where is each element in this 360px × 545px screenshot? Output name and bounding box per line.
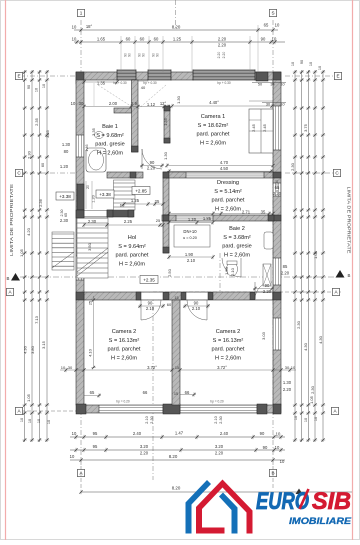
elevation +3.38 right xyxy=(96,190,114,198)
svg-text:H = 2,60m: H = 2,60m xyxy=(215,206,241,212)
svg-text:2.10: 2.10 xyxy=(192,306,201,311)
svg-text:2.50: 2.50 xyxy=(167,268,172,277)
svg-text:95: 95 xyxy=(93,431,98,436)
svg-text:10: 10 xyxy=(275,445,280,450)
svg-text:H = 2,60m: H = 2,60m xyxy=(97,150,123,156)
interior dim line shaft 1.20 1.85 xyxy=(169,222,213,224)
svg-text:LIMITA DE PROPRIETATE: LIMITA DE PROPRIETATE xyxy=(9,184,15,256)
svg-text:EURO: EURO xyxy=(256,488,309,515)
south wall corner block SE xyxy=(273,404,281,414)
axis box A right lower xyxy=(331,407,338,414)
svg-text:2.25: 2.25 xyxy=(124,219,133,224)
svg-text:66: 66 xyxy=(185,390,190,395)
svg-text:10: 10 xyxy=(71,101,76,106)
svg-text:10: 10 xyxy=(20,418,24,422)
svg-text:25: 25 xyxy=(89,301,93,305)
svg-text:90: 90 xyxy=(27,85,31,89)
south wall window left xyxy=(99,405,163,413)
west wall window xyxy=(76,135,84,157)
interior dim lines camera1 bottom 4.70 4.50 xyxy=(167,165,273,167)
south wall xyxy=(84,405,281,413)
interior dim line 1.25 xyxy=(124,203,163,205)
east wall xyxy=(273,80,281,405)
svg-text:90: 90 xyxy=(148,301,153,306)
svg-text:4.30: 4.30 xyxy=(303,342,308,351)
svg-text:4.50: 4.50 xyxy=(220,166,229,171)
svg-text:2.45: 2.45 xyxy=(251,123,256,132)
north wall xyxy=(76,72,281,80)
svg-text:3.72°: 3.72° xyxy=(217,365,227,370)
door arc baie1 xyxy=(142,149,162,169)
north wall window left xyxy=(117,70,136,81)
svg-text:15: 15 xyxy=(175,366,179,370)
door arc hol-camera2 left xyxy=(141,300,161,320)
section A horizontal dashed left xyxy=(15,410,153,412)
east wall niche dressing xyxy=(273,183,281,196)
svg-text:10: 10 xyxy=(304,418,308,422)
svg-text:1.46: 1.46 xyxy=(85,145,89,152)
door arc hol-camera2 right xyxy=(187,300,207,320)
svg-text:90: 90 xyxy=(156,53,160,57)
svg-text:1.85: 1.85 xyxy=(203,216,212,221)
interior staircase xyxy=(77,218,108,278)
interior dim line baie1 top xyxy=(84,106,168,108)
svg-text:2.30: 2.30 xyxy=(60,218,69,223)
svg-text:+2.35: +2.35 xyxy=(143,277,155,282)
svg-text:80: 80 xyxy=(64,149,69,154)
svg-text:1.25: 1.25 xyxy=(173,37,182,42)
svg-text:hp = 0.20: hp = 0.20 xyxy=(116,400,130,404)
interior dim line 1.35 below north wall xyxy=(84,81,117,83)
svg-text:60: 60 xyxy=(41,163,45,167)
svg-text:w = 3.00: w = 3.00 xyxy=(275,180,279,192)
svg-text:1.30: 1.30 xyxy=(176,95,181,104)
interior dim line camera1 top 4.40 xyxy=(172,105,272,107)
svg-text:Dressing: Dressing xyxy=(217,180,239,186)
svg-text:3.35: 3.35 xyxy=(45,129,50,138)
svg-text:90: 90 xyxy=(128,53,132,57)
svg-text:2.9: 2.9 xyxy=(131,101,137,106)
svg-text:10: 10 xyxy=(294,416,298,420)
svg-text:10: 10 xyxy=(309,62,313,66)
svg-text:2.20: 2.20 xyxy=(263,289,272,294)
svg-text:3.20: 3.20 xyxy=(215,444,224,449)
svg-text:2.35: 2.35 xyxy=(34,117,39,126)
axis box E right xyxy=(334,72,341,79)
top dim line 2 xyxy=(74,41,285,43)
axis box A left xyxy=(6,288,13,295)
axis box C right xyxy=(333,169,340,176)
svg-text:10: 10 xyxy=(61,365,66,370)
svg-text:E: E xyxy=(336,74,339,79)
svg-text:1.47: 1.47 xyxy=(175,431,184,436)
sink baie1 xyxy=(95,132,104,139)
svg-text:3.80: 3.80 xyxy=(30,345,35,354)
svg-text:3.35: 3.35 xyxy=(91,127,96,136)
svg-text:90: 90 xyxy=(150,160,155,165)
svg-text:4.30: 4.30 xyxy=(318,335,323,344)
svg-text:DN+10: DN+10 xyxy=(183,229,197,234)
left dim chain lines xyxy=(24,70,26,442)
svg-text:60: 60 xyxy=(140,37,145,42)
axis 1 vertical dashed xyxy=(80,20,82,466)
closet shelf line xyxy=(249,100,273,102)
stair flight upper xyxy=(114,180,136,210)
interior dim line camera2 width 3.72 left xyxy=(60,369,172,371)
radiator baie2 xyxy=(263,264,271,286)
interior wall hol-dressing vertical xyxy=(163,178,169,215)
svg-text:4.30: 4.30 xyxy=(23,345,28,354)
svg-text:pard. parchet: pard. parchet xyxy=(197,132,230,138)
svg-text:4.70: 4.70 xyxy=(220,160,229,165)
svg-text:Hol: Hol xyxy=(128,235,136,241)
svg-text:hp = 0.20: hp = 0.20 xyxy=(210,400,224,404)
svg-text:2.20: 2.20 xyxy=(281,271,290,276)
svg-text:Baie 2: Baie 2 xyxy=(229,226,245,232)
svg-text:12°: 12° xyxy=(160,101,167,106)
svg-text:1.65: 1.65 xyxy=(97,37,106,42)
interior wall baie1-hol xyxy=(107,210,133,217)
interior dim line camera2 east door xyxy=(253,288,274,290)
svg-text:u = 0.20: u = 0.20 xyxy=(183,236,197,240)
svg-text:hp + 0.30: hp + 0.30 xyxy=(217,81,231,85)
svg-text:10: 10 xyxy=(276,432,281,437)
svg-text:65: 65 xyxy=(264,23,269,28)
north wall corner block NW xyxy=(76,72,84,84)
svg-text:20: 20 xyxy=(86,185,90,189)
north wall window mid xyxy=(148,70,171,81)
svg-text:H = 2,60m: H = 2,60m xyxy=(111,355,137,361)
svg-text:85: 85 xyxy=(283,264,288,269)
right dim chain lines xyxy=(294,70,296,442)
east wall window baie2 xyxy=(273,258,281,285)
svg-text:10: 10 xyxy=(318,66,322,70)
door arc hol-baie2 xyxy=(222,258,241,277)
west wall window low xyxy=(76,256,84,280)
svg-text:10: 10 xyxy=(72,25,77,30)
svg-text:66: 66 xyxy=(143,390,148,395)
interior wall camera1 left xyxy=(164,106,170,143)
west wall dark column xyxy=(77,184,84,210)
interior dim line baie1 door 90 xyxy=(140,165,164,167)
shaft box DN xyxy=(174,225,210,247)
svg-text:10: 10 xyxy=(291,62,295,66)
svg-text:60: 60 xyxy=(167,302,172,307)
svg-text:2.10: 2.10 xyxy=(214,416,218,423)
svg-text:3.50: 3.50 xyxy=(87,242,92,251)
south wall pier east xyxy=(257,404,267,414)
interior dim line door 1.90 xyxy=(169,256,213,258)
svg-text:60: 60 xyxy=(120,203,125,208)
svg-text:Camera 2: Camera 2 xyxy=(216,329,241,335)
svg-text:10: 10 xyxy=(314,417,318,421)
entrance swing dashes xyxy=(98,85,137,110)
svg-text:SIB: SIB xyxy=(312,488,351,515)
interior wall hol-baie2 vertical xyxy=(163,221,169,253)
svg-text:1.25: 1.25 xyxy=(131,198,140,203)
bathtub baie1 xyxy=(86,148,106,172)
svg-text:1.90: 1.90 xyxy=(185,252,194,257)
svg-text:15: 15 xyxy=(174,392,178,396)
interior vertical dim camera2 left xyxy=(93,296,95,368)
svg-text:pard. gresie: pard. gresie xyxy=(95,142,125,148)
svg-text:2.20: 2.20 xyxy=(283,387,292,392)
svg-text:10: 10 xyxy=(42,84,46,88)
svg-text:40: 40 xyxy=(141,85,146,90)
interior wall dressing-baie2 xyxy=(162,215,274,221)
svg-text:2.36: 2.36 xyxy=(38,198,43,207)
axis mid vertical dashed xyxy=(152,296,154,480)
svg-text:2.40: 2.40 xyxy=(133,431,142,436)
svg-text:S: S xyxy=(271,11,274,16)
svg-text:S = 3.68m²: S = 3.68m² xyxy=(223,235,251,241)
axis top mid dashed xyxy=(175,0,177,30)
svg-text:10: 10 xyxy=(272,37,277,42)
svg-text:1.05: 1.05 xyxy=(19,248,24,257)
svg-text:1.05: 1.05 xyxy=(26,393,31,402)
svg-text:10: 10 xyxy=(280,83,284,87)
svg-text:10: 10 xyxy=(72,431,77,436)
svg-text:S = 18.62m²: S = 18.62m² xyxy=(198,123,229,129)
toilet baie2 xyxy=(227,262,238,276)
svg-text:10: 10 xyxy=(72,37,77,42)
svg-text:pard. parchet: pard. parchet xyxy=(212,347,245,353)
exterior entrance steps xyxy=(52,232,74,270)
svg-text:90: 90 xyxy=(194,301,199,306)
svg-text:1.35: 1.35 xyxy=(163,117,168,126)
svg-text:S = 9.64m²: S = 9.64m² xyxy=(118,244,146,250)
door arc landing-hol xyxy=(86,219,107,240)
svg-text:+2.85: +2.85 xyxy=(135,188,147,193)
svg-text:30: 30 xyxy=(68,365,73,370)
closet camera1 xyxy=(249,109,273,153)
axis box B bottom xyxy=(269,469,276,476)
property limit line left xyxy=(5,0,7,540)
svg-text:65: 65 xyxy=(64,213,68,217)
north wall corner block NE xyxy=(273,72,281,84)
svg-text:hp + 0.30: hp + 0.30 xyxy=(143,81,157,85)
sink baie2 xyxy=(264,232,273,249)
svg-text:3.20: 3.20 xyxy=(140,444,149,449)
svg-text:7.13: 7.13 xyxy=(34,315,39,324)
svg-text:2.71: 2.71 xyxy=(242,210,251,215)
svg-text:65: 65 xyxy=(90,390,95,395)
svg-text:8.20: 8.20 xyxy=(169,454,178,459)
south wall corner block SW xyxy=(76,404,86,414)
svg-text:10: 10 xyxy=(47,420,51,424)
glazing camera1-dressing xyxy=(186,172,264,178)
svg-text:2.45: 2.45 xyxy=(262,123,267,132)
svg-text:2.10: 2.10 xyxy=(146,306,155,311)
north wall window 2.20 xyxy=(193,70,255,81)
top dim line 1 xyxy=(74,29,278,31)
svg-text:30: 30 xyxy=(266,103,270,107)
bottom total line xyxy=(81,491,352,493)
svg-text:+3.38: +3.38 xyxy=(99,192,111,197)
svg-text:Camera 2: Camera 2 xyxy=(112,329,137,335)
svg-text:H = 2,60m: H = 2,60m xyxy=(215,355,241,361)
svg-text:90: 90 xyxy=(265,283,270,288)
svg-text:3.72°: 3.72° xyxy=(147,365,157,370)
interior wall camera1-dressing xyxy=(107,172,143,178)
section B horizontal dash-dot xyxy=(20,276,341,278)
axis E horizontal dashed xyxy=(20,75,76,77)
north wall pier dark xyxy=(256,72,268,81)
bottom dim line 1 xyxy=(70,436,285,438)
svg-text:90: 90 xyxy=(263,445,268,450)
svg-text:3.03: 3.03 xyxy=(261,331,266,340)
axis box 1 xyxy=(77,9,84,16)
svg-text:60: 60 xyxy=(126,37,131,42)
svg-text:8.20: 8.20 xyxy=(172,25,181,30)
door opening hol-camera2 right gap xyxy=(185,293,208,300)
axis S/B vertical dashed xyxy=(272,20,274,466)
interior wall baie1 L horizontal xyxy=(114,108,132,113)
svg-text:2.20: 2.20 xyxy=(215,451,224,456)
svg-text:2.30: 2.30 xyxy=(88,219,97,224)
svg-text:50: 50 xyxy=(258,83,262,87)
bottom dim line 3 xyxy=(70,459,285,461)
svg-text:pard. parchet: pard. parchet xyxy=(212,198,245,204)
bottom dim line 2 xyxy=(70,449,285,451)
svg-text:1.30: 1.30 xyxy=(163,151,168,160)
north wall small dim 40 xyxy=(136,80,148,82)
svg-text:1.12: 1.12 xyxy=(147,102,156,107)
section marker B right xyxy=(336,270,345,278)
svg-text:E: E xyxy=(17,74,20,79)
svg-text:H = 2,60m: H = 2,60m xyxy=(200,140,226,146)
east wall window camera1 xyxy=(273,106,281,150)
svg-text:2.00: 2.00 xyxy=(109,101,118,106)
svg-text:2.30: 2.30 xyxy=(150,416,154,423)
svg-text:90: 90 xyxy=(142,53,146,57)
axis box A right xyxy=(332,288,339,295)
svg-text:1.30: 1.30 xyxy=(62,142,71,147)
svg-text:2.10: 2.10 xyxy=(187,258,196,263)
svg-text:pard. parchet: pard. parchet xyxy=(116,253,149,259)
svg-text:34: 34 xyxy=(270,83,274,87)
logo EURO SIB house icon blue left stroke xyxy=(186,480,253,534)
svg-text:1.30: 1.30 xyxy=(283,380,292,385)
svg-text:90: 90 xyxy=(260,431,265,436)
interior dim line dressing 2.71 xyxy=(169,213,273,215)
svg-text:30: 30 xyxy=(285,365,290,370)
svg-text:2.30: 2.30 xyxy=(27,150,32,159)
interior dim line hol top xyxy=(84,224,163,226)
axis box E left xyxy=(15,72,22,79)
svg-text:4.40°: 4.40° xyxy=(209,100,219,105)
elevation +3.38 left xyxy=(56,192,74,200)
svg-text:3.15: 3.15 xyxy=(41,340,46,349)
door arc camera2 east xyxy=(255,282,272,299)
svg-text:1.50: 1.50 xyxy=(224,266,229,275)
property limit line right xyxy=(352,0,354,540)
svg-text:35: 35 xyxy=(261,210,266,215)
svg-text:25: 25 xyxy=(155,199,160,204)
svg-text:1.20: 1.20 xyxy=(92,195,96,202)
svg-text:2.30: 2.30 xyxy=(310,385,315,394)
svg-text:8.20: 8.20 xyxy=(172,486,181,491)
svg-text:18°: 18° xyxy=(86,24,93,29)
axis C horizontal dashed xyxy=(20,172,76,174)
svg-text:Camera 1: Camera 1 xyxy=(201,114,226,120)
svg-text:2.30: 2.30 xyxy=(296,320,301,329)
junction caps xyxy=(132,146,139,152)
svg-text:1.05: 1.05 xyxy=(309,395,314,404)
svg-text:2.20: 2.20 xyxy=(140,451,149,456)
svg-text:B: B xyxy=(348,273,351,278)
interior dim line 66 right xyxy=(180,394,196,396)
svg-text:15: 15 xyxy=(174,296,178,300)
axis baie2 vertical dashed xyxy=(219,253,221,298)
svg-text:H = 2,60m: H = 2,60m xyxy=(119,261,145,267)
svg-text:4.20: 4.20 xyxy=(26,227,31,236)
svg-text:10: 10 xyxy=(28,419,32,423)
svg-text:2.30: 2.30 xyxy=(290,162,295,171)
svg-text:2.20: 2.20 xyxy=(218,37,227,42)
svg-text:10: 10 xyxy=(280,459,285,464)
elevation +2.35 xyxy=(140,276,158,284)
section marker B left xyxy=(11,273,20,281)
svg-text:1: 1 xyxy=(80,11,83,16)
interior dim line 65 left xyxy=(84,395,101,397)
svg-text:Baie 1: Baie 1 xyxy=(102,124,118,130)
svg-text:1.05: 1.05 xyxy=(313,250,318,259)
svg-text:25: 25 xyxy=(156,218,161,223)
door opening hol-camera2 left gap xyxy=(140,293,163,300)
svg-text:2.20: 2.20 xyxy=(217,52,221,59)
svg-text:2.20: 2.20 xyxy=(222,52,226,59)
svg-text:S = 9.68m²: S = 9.68m² xyxy=(96,133,124,139)
glazing dressing-baie2 xyxy=(176,215,213,221)
svg-text:2.40: 2.40 xyxy=(220,431,229,436)
svg-text:B: B xyxy=(7,276,10,281)
axis box S xyxy=(269,9,276,16)
svg-text:1.35: 1.35 xyxy=(97,81,106,86)
svg-text:10: 10 xyxy=(275,23,280,28)
svg-text:2.10: 2.10 xyxy=(230,267,235,276)
svg-text:90: 90 xyxy=(300,60,304,64)
svg-text:2.10: 2.10 xyxy=(145,416,149,423)
svg-text:2.20: 2.20 xyxy=(147,166,156,171)
interior wall hol-camera2 divider xyxy=(84,292,273,300)
svg-text:2.30: 2.30 xyxy=(219,416,223,423)
svg-text:pard. parchet: pard. parchet xyxy=(108,347,141,353)
svg-text:hp + 0.30: hp + 0.30 xyxy=(113,81,127,85)
interior dim line camera2 width 3.72 right xyxy=(180,369,296,371)
svg-text:10: 10 xyxy=(37,419,41,423)
logo O red slash xyxy=(300,489,309,509)
interior dim line camera2 doors xyxy=(138,305,165,307)
landing rails xyxy=(85,181,87,209)
svg-text:S = 16.13m²: S = 16.13m² xyxy=(109,338,140,344)
west wall xyxy=(76,80,84,405)
svg-text:1.20: 1.20 xyxy=(188,217,197,222)
axis box A bottom xyxy=(77,469,84,476)
elevation +2.85 xyxy=(132,187,150,195)
svg-text:95: 95 xyxy=(93,444,98,449)
interior wall baie1 L vertical xyxy=(132,80,139,152)
svg-text:IMOBILIARE: IMOBILIARE xyxy=(289,516,352,527)
svg-text:2.20: 2.20 xyxy=(218,43,227,48)
door opening camera2 east gap xyxy=(254,293,272,300)
svg-text:H = 2,60m: H = 2,60m xyxy=(224,252,250,258)
svg-text:3.75: 3.75 xyxy=(303,123,308,132)
south wall pier mid xyxy=(163,404,180,414)
axis box C left xyxy=(15,169,22,176)
svg-text:S = 16.13m²: S = 16.13m² xyxy=(213,338,244,344)
interior wall camera2 divider vertical xyxy=(172,300,180,405)
